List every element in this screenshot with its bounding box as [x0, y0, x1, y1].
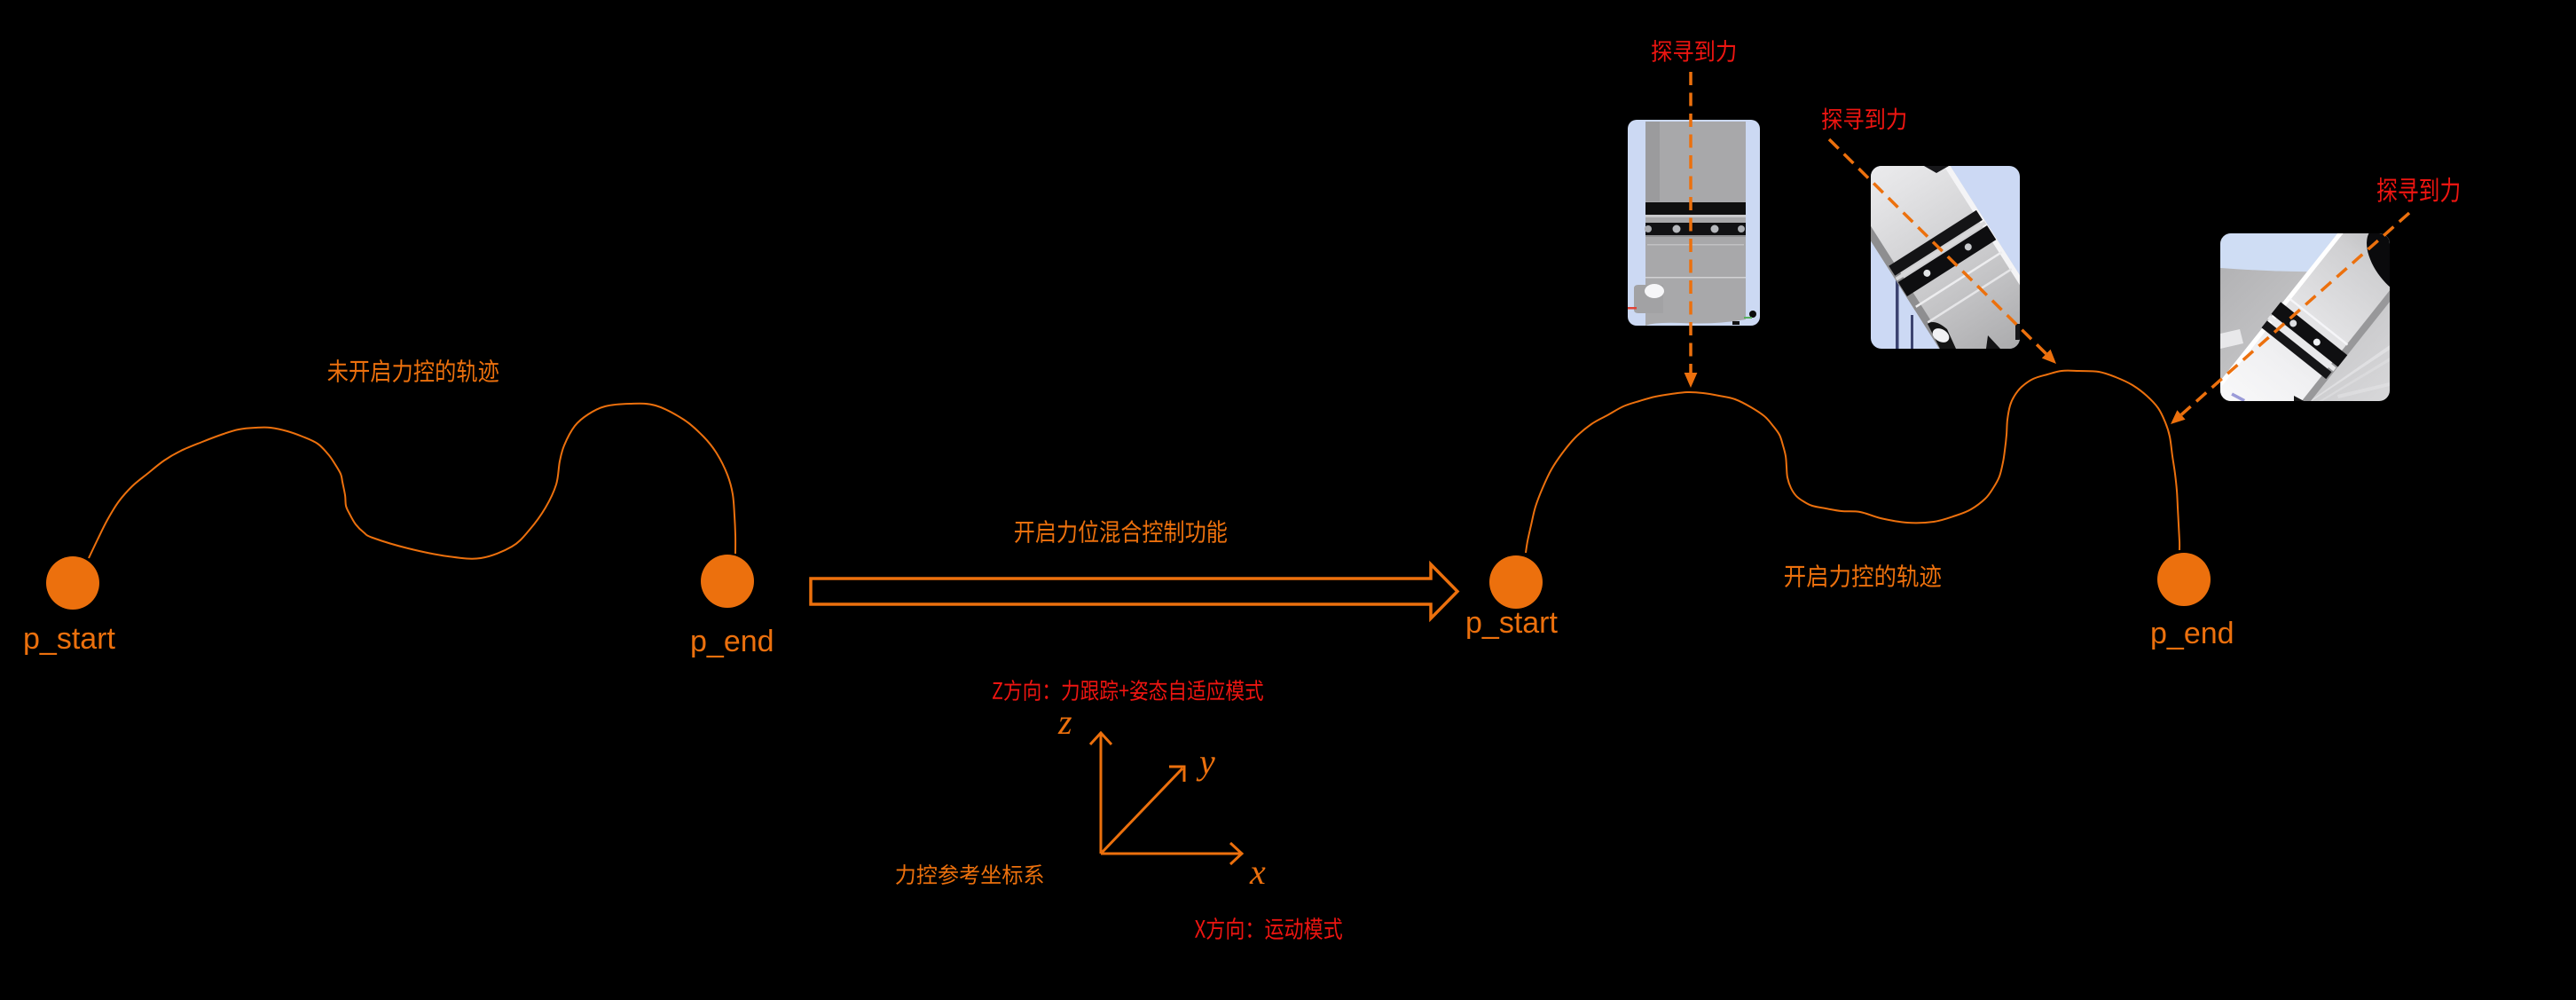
- big hollow arrow: enable hybrid force-position control: [811, 564, 1457, 618]
- svg-text:p_end: p_end: [690, 625, 774, 658]
- p_start dot (left): [46, 556, 99, 610]
- svg-text:p_start: p_start: [23, 622, 115, 656]
- dashed arrow 1 (force detected, vertical): [1685, 72, 1698, 388]
- p_end dot (left): [701, 555, 754, 608]
- p_end dot (right): [2157, 553, 2211, 606]
- label: force control reference frame: [896, 864, 1043, 885]
- red label: force detected #2: [1822, 107, 1905, 130]
- red label: X direction mode: [1195, 917, 1342, 940]
- red label: force detected #3: [2377, 177, 2459, 202]
- force-control reference frame: z axis: [1090, 733, 1111, 854]
- x axis: [1101, 843, 1242, 864]
- label: trajectory with force control: [1785, 564, 1941, 587]
- svg-text:p_end: p_end: [2150, 617, 2234, 650]
- y axis: [1101, 767, 1184, 854]
- dashed arrow 3 (force detected, diagonal down-left): [2171, 213, 2409, 424]
- p_start dot (right): [1489, 555, 1543, 609]
- svg-text:y: y: [1196, 742, 1215, 782]
- dashed arrow 2 (force detected, diagonal down-right): [1829, 139, 2056, 364]
- label: enable force-position hybrid control: [1015, 520, 1227, 543]
- svg-text:z: z: [1057, 702, 1072, 742]
- svg-text:x: x: [1249, 852, 1266, 892]
- red label: force detected #1: [1652, 40, 1735, 62]
- robot photo 1: vertical arm close-up: [1628, 120, 1760, 326]
- left trajectory curve (no force control): [89, 404, 735, 559]
- right trajectory curve (force control on): [1526, 371, 2179, 553]
- svg-text:p_start: p_start: [1465, 606, 1558, 640]
- label: trajectory without force control: [328, 359, 499, 382]
- robot photo 2: tilted arm close-up: [1814, 94, 2076, 421]
- robot photo 3: tilted arm with sky background: [2180, 171, 2451, 481]
- red label: Z direction mode: [993, 680, 1263, 701]
